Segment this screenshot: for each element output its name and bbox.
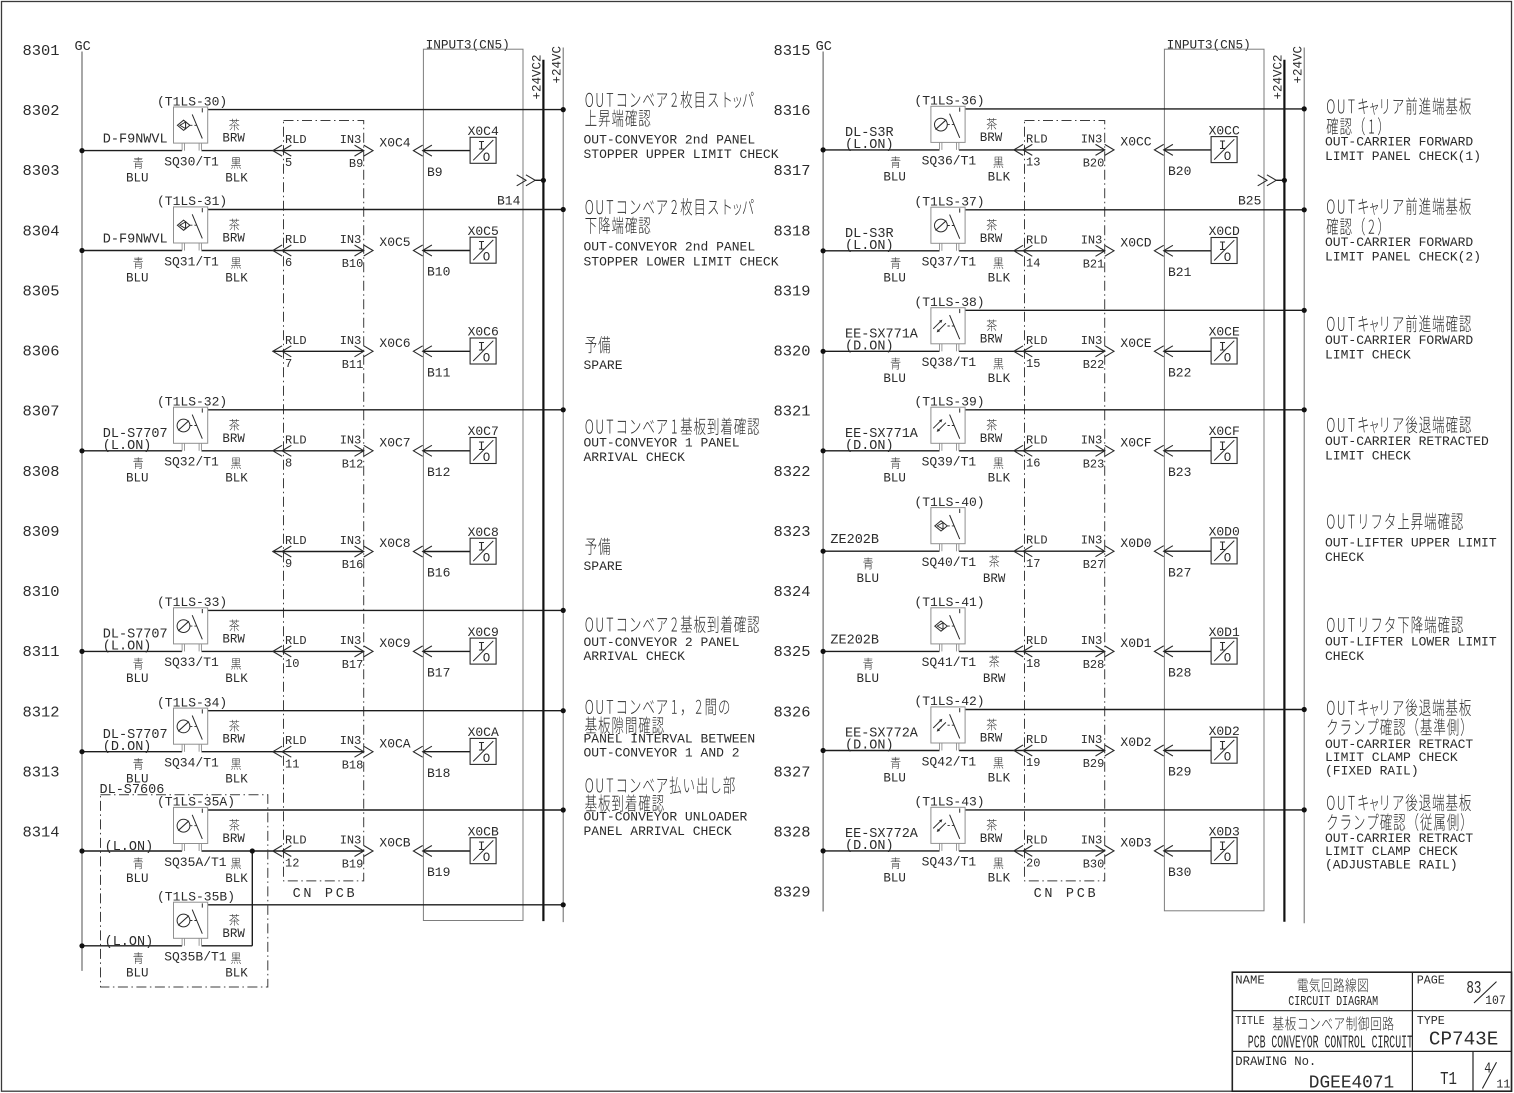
svg-text:SQ40/T1: SQ40/T1 <box>922 555 977 570</box>
label lead colors BRW/BLU/BLK (T1LS-43) <box>883 819 1010 886</box>
svg-text:X0CA: X0CA <box>379 736 410 751</box>
svg-text:B18: B18 <box>342 758 364 772</box>
svg-text:RLD: RLD <box>285 233 307 247</box>
svg-text:IN3: IN3 <box>1081 634 1103 648</box>
junction node on GC bus at T1LS-39 <box>821 448 826 453</box>
connector pin arrows RLD 7 / IN3 B11 (spare X0C6) <box>273 346 373 357</box>
svg-text:8302: 8302 <box>23 103 60 120</box>
connector pin arrows RLD 14 / IN3 B21 (T1LS-37) <box>1014 245 1114 256</box>
description text for T1LS-38 <box>1325 315 1473 362</box>
svg-text:OUT-CARRIER FORWARD: OUT-CARRIER FORWARD <box>1325 235 1473 250</box>
svg-text:B30: B30 <box>1168 865 1191 880</box>
junction node on GC bus at T1LS-42 <box>821 748 826 753</box>
svg-text:OUT-CARRIER FORWARD: OUT-CARRIER FORWARD <box>1325 333 1473 348</box>
svg-text:PCB CONVEYOR CONTROL CIRCUIT: PCB CONVEYOR CONTROL CIRCUIT <box>1248 1033 1413 1053</box>
label sensor model EE-SX772A/(D.ON) <box>845 727 919 754</box>
sensor SQ35A/T1 (DL-S7626) reference T1LS-35A <box>174 807 208 851</box>
svg-text:(T1LS-34): (T1LS-34) <box>157 695 227 710</box>
title block DRAWING No. cell DGEE4071 <box>1235 1055 1394 1093</box>
sensor SQ42/T1 (EE-SX772A) reference T1LS-42 <box>931 707 965 751</box>
description text for spare X0C6 <box>584 336 623 373</box>
svg-text:X0D0: X0D0 <box>1209 525 1240 540</box>
label IN3 pin B28 <box>1081 634 1105 672</box>
svg-text:B27: B27 <box>1083 558 1105 572</box>
svg-text:8313: 8313 <box>23 764 60 781</box>
description text for T1LS-37 <box>1325 198 1481 265</box>
svg-text:BRW: BRW <box>980 832 1003 846</box>
sensor SQ34/T1 (DL-S7707) reference T1LS-34 <box>174 708 208 752</box>
svg-text:11: 11 <box>285 757 299 771</box>
label lead colors BRW/BLU/BLK (T1LS-39) <box>883 419 1010 486</box>
svg-text:8326: 8326 <box>774 704 811 721</box>
description text for T1LS-32 <box>584 418 760 465</box>
svg-text:7: 7 <box>285 357 292 371</box>
svg-text:RLD: RLD <box>285 433 307 447</box>
svg-text:(D.ON): (D.ON) <box>845 439 894 454</box>
sensor SQ32/T1 (DL-S7707) reference T1LS-32 <box>174 407 208 451</box>
svg-text:17: 17 <box>1026 557 1040 571</box>
sensor SQ30/T1 (D-F9NWVL) reference T1LS-30 <box>174 107 208 151</box>
svg-text:14: 14 <box>1026 256 1040 270</box>
I/O module X0CE <box>1209 325 1240 366</box>
svg-text:B21: B21 <box>1168 265 1192 280</box>
connector pin arrows RLD 13 / IN3 B20 (T1LS-36) <box>1014 144 1114 155</box>
svg-text:BRW: BRW <box>222 832 245 846</box>
svg-text:BLU: BLU <box>126 271 149 285</box>
I/O module X0C9 <box>468 625 499 666</box>
svg-text:OUT-CONVEYOR 1 PANEL: OUT-CONVEYOR 1 PANEL <box>584 436 740 451</box>
wire: X0C4 into INPUT3(CN5) and I/O module <box>413 145 470 156</box>
svg-text:8303: 8303 <box>23 163 60 180</box>
label lead colors BRW/BLU/BLK (T1LS-35B) <box>126 914 248 981</box>
sensor group DL-S7626 boundary (dash-dot box) <box>101 795 268 987</box>
svg-text:8322: 8322 <box>774 464 811 481</box>
svg-text:(T1LS-39): (T1LS-39) <box>914 395 984 410</box>
svg-text:8301: 8301 <box>23 43 60 60</box>
svg-text:LIMIT PANEL CHECK(1): LIMIT PANEL CHECK(1) <box>1325 149 1481 164</box>
svg-text:CHECK: CHECK <box>1325 649 1364 664</box>
svg-text:RLD: RLD <box>1026 833 1048 847</box>
svg-text:BLK: BLK <box>225 967 248 981</box>
svg-text:X0CC: X0CC <box>1209 123 1240 138</box>
wire: T1LS-36 sensor circuit from GC bus <box>823 149 1105 151</box>
svg-text:X0D2: X0D2 <box>1120 735 1151 750</box>
label RLD pin 10 <box>285 634 307 671</box>
svg-text:10: 10 <box>285 657 299 671</box>
svg-text:SQ36/T1: SQ36/T1 <box>922 154 977 169</box>
label lead colors BRW/BLU/BLK (T1LS-30) <box>126 119 248 186</box>
svg-text:PAGE: PAGE <box>1417 974 1445 988</box>
svg-text:IN3: IN3 <box>340 334 362 348</box>
svg-text:BLU: BLU <box>883 372 906 386</box>
wire: T1LS-38 sensor circuit from GC bus <box>823 350 1105 352</box>
connector pin arrows RLD 17 / IN3 B27 (T1LS-40) <box>1014 546 1114 557</box>
description text for T1LS-39 <box>1325 416 1489 463</box>
junction node on GC bus at T1LS-34 <box>79 749 84 754</box>
svg-text:16: 16 <box>1026 456 1040 470</box>
svg-text:B23: B23 <box>1168 465 1191 480</box>
label RLD pin 18 <box>1026 634 1048 671</box>
svg-text:8317: 8317 <box>774 163 811 180</box>
wire: T1LS-33 sensor +24V supply to +24VC bus <box>208 609 564 611</box>
label IN3 pin B16 <box>340 534 364 572</box>
sensor SQ36/T1 (DL-S3R) reference T1LS-36 <box>931 106 965 150</box>
svg-text:107: 107 <box>1485 993 1506 1008</box>
I/O module X0CA <box>468 725 499 766</box>
svg-text:BRW: BRW <box>980 732 1003 746</box>
svg-text:O: O <box>483 752 491 766</box>
svg-text:8328: 8328 <box>774 825 811 842</box>
svg-text:IN3: IN3 <box>340 133 362 147</box>
svg-text:BRW: BRW <box>222 232 245 246</box>
connector pin arrows RLD 11 / IN3 B18 (T1LS-34) <box>273 746 373 757</box>
label lead colors BLU/BRW (T1LS-40) <box>857 555 1006 586</box>
svg-text:BLU: BLU <box>857 672 880 686</box>
I/O module X0CF <box>1209 424 1240 465</box>
svg-text:B16: B16 <box>427 566 450 581</box>
label IN3 pin B17 <box>340 634 364 672</box>
svg-text:OUT-LIFTER UPPER LIMIT: OUT-LIFTER UPPER LIMIT <box>1325 536 1497 551</box>
description text for T1LS-33 <box>584 616 760 665</box>
svg-text:B12: B12 <box>342 457 364 471</box>
svg-text:O: O <box>483 451 491 465</box>
svg-text:O: O <box>1224 652 1232 666</box>
junction node on +24VC bus at T1LS-38 <box>1302 308 1307 313</box>
svg-text:BLU: BLU <box>883 472 906 486</box>
junction node on +24VC bus at T1LS-33 <box>561 608 566 613</box>
label lead colors BRW/BLU/BLK (T1LS-31) <box>126 219 248 286</box>
sensor SQ31/T1 (D-F9NWVL) reference T1LS-31 <box>174 207 208 251</box>
label RLD pin 19 <box>1026 733 1048 770</box>
I/O module X0D2 <box>1209 724 1240 765</box>
svg-text:(T1LS-31): (T1LS-31) <box>157 194 227 209</box>
svg-text:11: 11 <box>1496 1078 1510 1092</box>
svg-text:O: O <box>1224 451 1232 465</box>
svg-text:B19: B19 <box>342 858 364 872</box>
junction node on +24VC bus at T1LS-36 <box>1302 106 1307 111</box>
svg-text:OUT-LIFTER LOWER LIMIT: OUT-LIFTER LOWER LIMIT <box>1325 634 1497 649</box>
svg-text:X0CD: X0CD <box>1120 236 1151 251</box>
svg-text:TYPE: TYPE <box>1417 1014 1445 1028</box>
label sensor model DL-S7707/(L.ON) <box>103 427 168 454</box>
wire: T1LS-39 sensor +24V supply to +24VC bus <box>965 409 1304 411</box>
description text for T1LS-36 <box>1325 97 1481 164</box>
sensor SQ43/T1 (EE-SX772A) reference T1LS-43 <box>931 807 965 851</box>
connector pin arrows RLD 8 / IN3 B12 (T1LS-32) <box>273 445 373 456</box>
junction node on +24VC bus at T1LS-31 <box>561 207 566 212</box>
GC bus vertical wire (L half) <box>81 52 83 971</box>
svg-text:B19: B19 <box>427 865 450 880</box>
svg-text:(D.ON): (D.ON) <box>103 740 152 755</box>
wire: parallel link between SQ35A and SQ35B <box>251 851 253 946</box>
svg-text:B29: B29 <box>1083 757 1105 771</box>
svg-text:SQ33/T1: SQ33/T1 <box>164 655 219 670</box>
label RLD pin 20 <box>1026 833 1048 870</box>
label sensor model DL-S7707/(D.ON) <box>103 728 168 755</box>
title block TITLE cell <box>1235 1014 1413 1054</box>
svg-text:BRW: BRW <box>980 332 1003 346</box>
svg-text:RLD: RLD <box>285 634 307 648</box>
svg-text:STOPPER LOWER LIMIT CHECK: STOPPER LOWER LIMIT CHECK <box>584 254 779 269</box>
description text for T1LS-30 <box>584 91 779 162</box>
+24VC bus vertical wire (R half) <box>1303 48 1305 924</box>
label RLD pin 7 <box>285 334 307 371</box>
svg-text:ZE202B: ZE202B <box>830 633 879 648</box>
junction node on GC bus at T1LS-40 <box>821 549 826 554</box>
svg-text:B20: B20 <box>1168 164 1191 179</box>
svg-text:B14: B14 <box>497 194 521 209</box>
wire: X0CF into INPUT3(CN5) and I/O module <box>1154 445 1211 456</box>
svg-text:IN3: IN3 <box>1081 334 1103 348</box>
svg-text:BLK: BLK <box>988 472 1011 486</box>
label RLD pin 8 <box>285 433 307 470</box>
svg-text:BLK: BLK <box>225 773 248 787</box>
junction node on +24VC bus at T1LS-43 <box>1302 807 1307 812</box>
+24VC2 bus vertical wire (R half) <box>1283 60 1285 922</box>
junction node on +24VC bus at T1LS-37 <box>1302 207 1307 212</box>
connector pin arrows RLD 16 / IN3 B23 (T1LS-39) <box>1014 445 1114 456</box>
svg-text:B9: B9 <box>427 165 443 180</box>
svg-text:8312: 8312 <box>23 704 60 721</box>
svg-text:BLK: BLK <box>225 271 248 285</box>
svg-text:B10: B10 <box>342 257 364 271</box>
svg-text:OUT-CONVEYOR 1 AND 2: OUT-CONVEYOR 1 AND 2 <box>584 746 740 761</box>
label IN3 pin B19 <box>340 834 364 872</box>
svg-text:BLK: BLK <box>225 472 248 486</box>
wire: T1LS-35B sensor circuit from GC bus <box>82 945 252 947</box>
svg-text:X0C9: X0C9 <box>379 636 410 651</box>
svg-text:B12: B12 <box>427 465 450 480</box>
title block outline <box>1232 972 1511 1091</box>
svg-text:B10: B10 <box>427 265 450 280</box>
svg-text:+24VC: +24VC <box>550 46 564 84</box>
CN PCB boundary box (dash-dot, L half) <box>284 121 364 881</box>
svg-text:(T1LS-38): (T1LS-38) <box>914 295 984 310</box>
svg-text:RLD: RLD <box>285 834 307 848</box>
svg-text:(T1LS-37): (T1LS-37) <box>914 195 984 210</box>
svg-text:8310: 8310 <box>23 584 60 601</box>
junction node on GC bus at T1LS-30 <box>79 148 84 153</box>
svg-text:(D.ON): (D.ON) <box>845 839 894 854</box>
junction node on GC bus at T1LS-31 <box>79 248 84 253</box>
svg-text:X0D1: X0D1 <box>1120 636 1151 651</box>
wire: T1LS-43 sensor +24V supply to +24VC bus <box>965 809 1304 811</box>
title block TYPE cell CP743E <box>1417 1014 1499 1051</box>
connector pin arrows RLD 18 / IN3 B28 (T1LS-41) <box>1014 646 1114 657</box>
svg-text:BLK: BLK <box>988 372 1011 386</box>
svg-text:BRW: BRW <box>222 733 245 747</box>
svg-text:O: O <box>1224 251 1232 265</box>
title block NAME cell <box>1235 974 1378 1011</box>
svg-text:BLU: BLU <box>126 967 149 981</box>
svg-text:ARRIVAL CHECK: ARRIVAL CHECK <box>584 649 686 664</box>
svg-text:LIMIT CHECK: LIMIT CHECK <box>1325 347 1411 362</box>
svg-text:PANEL ARRIVAL CHECK: PANEL ARRIVAL CHECK <box>584 824 732 839</box>
svg-text:IN3: IN3 <box>340 433 362 447</box>
connector pin arrows RLD 10 / IN3 B17 (T1LS-33) <box>273 646 373 657</box>
svg-text:(T1LS-40): (T1LS-40) <box>914 495 984 510</box>
node B14 branch arrow into +24VC2 <box>517 175 546 186</box>
svg-text:D-F9NWVL: D-F9NWVL <box>103 233 168 248</box>
wire: X0D2 into INPUT3(CN5) and I/O module <box>1154 745 1211 756</box>
svg-text:8304: 8304 <box>23 223 60 240</box>
svg-text:(T1LS-35B): (T1LS-35B) <box>157 890 235 905</box>
label RLD pin 6 <box>285 233 307 270</box>
svg-text:(T1LS-41): (T1LS-41) <box>914 595 984 610</box>
wire: X0CE into INPUT3(CN5) and I/O module <box>1154 346 1211 357</box>
wire: T1LS-35A sensor circuit from GC bus <box>82 850 364 852</box>
svg-text:STOPPER UPPER LIMIT CHECK: STOPPER UPPER LIMIT CHECK <box>584 147 779 162</box>
svg-text:SQ41/T1: SQ41/T1 <box>922 655 977 670</box>
svg-text:IN3: IN3 <box>340 734 362 748</box>
svg-text:RLD: RLD <box>285 534 307 548</box>
wire: T1LS-41 sensor circuit from GC bus <box>823 650 1105 652</box>
wire: T1LS-35B sensor +24V supply to +24VC bus <box>208 904 564 906</box>
sensor SQ37/T1 (DL-S3R) reference T1LS-37 <box>931 207 965 251</box>
svg-text:IN3: IN3 <box>1081 433 1103 447</box>
wire: X0CD into INPUT3(CN5) and I/O module <box>1154 245 1211 256</box>
svg-text:BLU: BLU <box>883 272 906 286</box>
svg-text:RLD: RLD <box>1026 634 1048 648</box>
label IN3 pin B22 <box>1081 334 1105 372</box>
svg-text:19: 19 <box>1026 756 1040 770</box>
+24VC bus vertical wire (L half) <box>562 48 564 923</box>
svg-text:B9: B9 <box>349 157 363 171</box>
I/O module X0C6 <box>468 325 499 366</box>
svg-text:RLD: RLD <box>285 334 307 348</box>
wire: T1LS-34 sensor +24V supply to +24VC bus <box>208 710 564 712</box>
svg-text:BLU: BLU <box>883 771 906 785</box>
svg-text:SPARE: SPARE <box>584 559 623 574</box>
label IN3 pin B30 <box>1081 833 1105 871</box>
svg-text:(T1LS-42): (T1LS-42) <box>914 694 984 709</box>
svg-text:(L.ON): (L.ON) <box>105 935 154 950</box>
svg-text:8309: 8309 <box>23 524 60 541</box>
junction node on GC bus at T1LS-41 <box>821 649 826 654</box>
I/O module X0C8 <box>468 525 499 566</box>
description text for T1LS-34 <box>584 699 756 761</box>
svg-text:B27: B27 <box>1168 565 1191 580</box>
label RLD pin 11 <box>285 734 307 771</box>
svg-text:18: 18 <box>1026 657 1040 671</box>
wire: T1LS-37 sensor +24V supply to +24VC bus <box>965 209 1304 211</box>
label lead colors BRW/BLU/BLK (T1LS-35A) <box>126 819 248 886</box>
svg-text:BLU: BLU <box>857 572 880 586</box>
node B25 branch arrow into +24VC2 <box>1258 175 1287 186</box>
junction node on GC bus at T1LS-36 <box>821 147 826 152</box>
wire: T1LS-40 sensor circuit from GC bus <box>823 550 1105 552</box>
wire: T1LS-33 sensor circuit from GC bus <box>82 650 364 652</box>
svg-text:O: O <box>1224 150 1232 164</box>
label lead colors BLU/BRW (T1LS-41) <box>857 656 1006 687</box>
svg-text:B28: B28 <box>1168 666 1191 681</box>
svg-text:(T1LS-32): (T1LS-32) <box>157 395 227 410</box>
label RLD pin 17 <box>1026 534 1048 571</box>
svg-text:8306: 8306 <box>23 344 60 361</box>
svg-text:OUT-CARRIER RETRACTED: OUT-CARRIER RETRACTED <box>1325 434 1489 449</box>
+24VC2 bus vertical wire (L half) <box>542 60 544 921</box>
svg-text:(D.ON): (D.ON) <box>845 340 894 355</box>
connector pin arrows RLD 12 / IN3 B19 (T1LS-35A) <box>273 846 373 857</box>
svg-text:8320: 8320 <box>774 344 811 361</box>
svg-text:DRAWING No.: DRAWING No. <box>1235 1055 1316 1069</box>
svg-text:O: O <box>1224 751 1232 765</box>
svg-text:IN3: IN3 <box>1081 132 1103 146</box>
junction node on GC bus at T1LS-32 <box>79 448 84 453</box>
svg-text:LIMIT CHECK: LIMIT CHECK <box>1325 448 1411 463</box>
svg-text:B11: B11 <box>427 366 451 381</box>
svg-text:8318: 8318 <box>774 223 811 240</box>
svg-text:X0CA: X0CA <box>468 725 499 740</box>
svg-text:IN3: IN3 <box>340 834 362 848</box>
I/O module X0C7 <box>468 424 499 465</box>
svg-text:BLU: BLU <box>883 171 906 185</box>
svg-text:8315: 8315 <box>774 43 811 60</box>
svg-text:IN3: IN3 <box>1081 733 1103 747</box>
wire: X0CA into INPUT3(CN5) and I/O module <box>413 746 470 757</box>
label lead colors BRW/BLU/BLK (T1LS-37) <box>883 219 1010 286</box>
label sensor model EE-SX771A/(D.ON) <box>845 427 919 454</box>
svg-text:SQ35A/T1: SQ35A/T1 <box>164 855 227 870</box>
svg-text:OUT-CARRIER FORWARD: OUT-CARRIER FORWARD <box>1325 135 1473 150</box>
svg-text:CHECK: CHECK <box>1325 550 1364 565</box>
svg-text:PANEL INTERVAL BETWEEN: PANEL INTERVAL BETWEEN <box>584 731 756 746</box>
label lead colors BRW/BLU/BLK (T1LS-32) <box>126 419 248 486</box>
description text for T1LS-41 <box>1325 616 1497 664</box>
svg-text:O: O <box>1224 551 1232 565</box>
junction node on GC bus at T1LS-33 <box>79 649 84 654</box>
GC bus vertical wire (R half) <box>822 52 824 912</box>
wire: X0C6 into INPUT3(CN5) and I/O module <box>413 346 470 357</box>
svg-text:BRW: BRW <box>222 632 245 646</box>
svg-text:(T1LS-33): (T1LS-33) <box>157 595 227 610</box>
svg-text:(T1LS-43): (T1LS-43) <box>914 795 984 810</box>
svg-text:X0D0: X0D0 <box>1120 536 1151 551</box>
svg-text:BLU: BLU <box>126 872 149 886</box>
svg-text:8314: 8314 <box>23 825 60 842</box>
svg-text:BRW: BRW <box>222 927 245 941</box>
label RLD pin 14 <box>1026 233 1048 270</box>
svg-text:D-F9NWVL: D-F9NWVL <box>103 133 168 148</box>
connector INPUT3(CN5) outline (R half) <box>1164 49 1264 911</box>
sensor SQ33/T1 (DL-S7707) reference T1LS-33 <box>174 608 208 652</box>
connector pin arrows RLD 5 / IN3 B9 (T1LS-30) <box>273 145 373 156</box>
svg-text:SQ32/T1: SQ32/T1 <box>164 455 219 470</box>
junction node on +24VC bus at T1LS-39 <box>1302 407 1307 412</box>
svg-text:BRW: BRW <box>980 131 1003 145</box>
svg-text:X0D3: X0D3 <box>1120 836 1151 851</box>
wire: T1LS-42 sensor circuit from GC bus <box>823 750 1105 752</box>
junction node on +24VC bus at T1LS-35B <box>561 902 566 907</box>
svg-text:X0C5: X0C5 <box>379 235 410 250</box>
svg-text:8: 8 <box>285 456 292 470</box>
CN PCB boundary box (dash-dot, R half) <box>1025 121 1105 881</box>
svg-text:8316: 8316 <box>774 103 811 120</box>
svg-text:X0CD: X0CD <box>1209 224 1240 239</box>
svg-text:SPARE: SPARE <box>584 358 623 373</box>
svg-text:OUT-CONVEYOR UNLOADER: OUT-CONVEYOR UNLOADER <box>584 809 748 824</box>
svg-text:8329: 8329 <box>774 885 811 902</box>
label RLD pin 13 <box>1026 132 1048 169</box>
junction node on +24VC bus at T1LS-30 <box>561 107 566 112</box>
label IN3 pin B27 <box>1081 534 1105 572</box>
wire: X0CC into INPUT3(CN5) and I/O module <box>1154 144 1211 155</box>
svg-text:(T1LS-30): (T1LS-30) <box>157 94 227 109</box>
svg-text:BRW: BRW <box>983 672 1006 686</box>
I/O module X0D3 <box>1209 824 1240 865</box>
svg-text:8319: 8319 <box>774 284 811 301</box>
svg-text:+24VC: +24VC <box>1291 46 1305 84</box>
